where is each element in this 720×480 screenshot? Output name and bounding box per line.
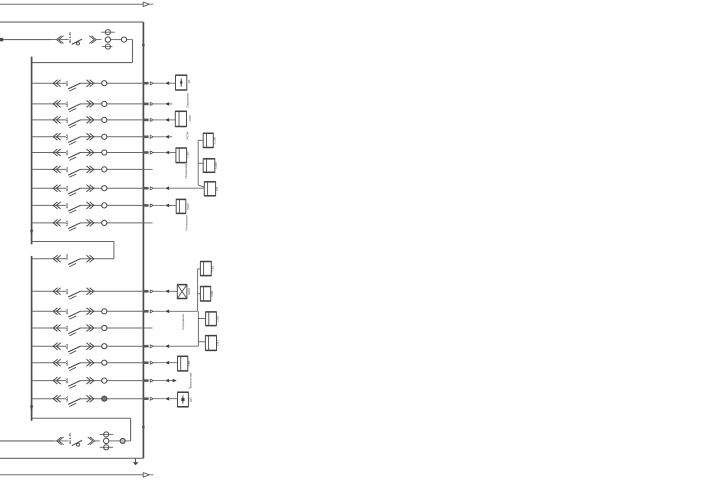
wire: row L3 stub past bus	[143, 327, 152, 329]
connector plug right (row 9)	[86, 219, 94, 226]
breaker pole (row 1)	[102, 81, 107, 86]
svg-text:16А: 16А	[65, 134, 69, 140]
wire: row 6 stub past bus	[143, 168, 152, 170]
wire: row L5 branch from left bus	[32, 362, 144, 364]
svg-text:63А: 63А	[65, 253, 69, 259]
connector plug right (row L7)	[86, 395, 94, 402]
wire: bottom horizontal link	[0, 457, 143, 459]
svg-text:СВ1: СВ1	[211, 265, 215, 271]
svg-text:16А: 16А	[65, 185, 69, 191]
connector plug right (row 2)	[86, 100, 94, 107]
wire: row L7 branch from left bus	[32, 398, 144, 400]
breaker QF blade (row 4)	[68, 137, 80, 145]
svg-text:16А: 16А	[65, 101, 69, 107]
wire: row 6 branch from left bus	[32, 168, 144, 170]
breaker QF blade (row 3)	[68, 120, 80, 128]
fuse and plug contacts (row L1 output)	[144, 290, 178, 294]
label: Rezervnaya (reserve) feeder	[185, 215, 189, 230]
load box C300	[203, 133, 213, 147]
arrow: flow arrow on right bus (top)	[142, 44, 145, 49]
svg-text:С2М: С2М	[214, 162, 218, 169]
breaker pole (row 6)	[102, 167, 107, 172]
connector plug right (row L4)	[86, 343, 94, 350]
arrow: flow arrow on left bus B	[30, 406, 33, 412]
connector plug left (row 7)	[53, 185, 61, 192]
wire: row 8 branch from left bus	[32, 204, 144, 206]
breaker QF blade (row 8)	[68, 205, 80, 213]
svg-text:16А: 16А	[65, 377, 69, 383]
arrow: top line arrowhead	[143, 2, 153, 7]
wire: feeder 2 mid segment	[0, 440, 69, 442]
label: breaker rating row 1	[65, 80, 69, 86]
svg-text:ЩАО: ЩАО	[187, 287, 191, 295]
connector plug right (row 6)	[86, 166, 94, 173]
label: breaker rating row 6	[65, 166, 69, 172]
bus: left bus section B	[31, 256, 33, 421]
label: RSHchU	[186, 203, 190, 210]
breaker pole C (feeder 2)	[100, 445, 113, 450]
label: feeder 1 breaker rating	[68, 32, 72, 43]
breaker pole (row L2)	[102, 309, 107, 314]
wire: row L6 branch from left bus	[32, 380, 144, 382]
connector plug left (row L6)	[53, 377, 61, 384]
connector plug left (row 9)	[53, 219, 61, 226]
connector plug left (row 1)	[53, 80, 61, 87]
connector plug right (row 1)	[86, 80, 94, 87]
wire: row L2 branch from left bus	[32, 310, 144, 312]
wire: bus tie bridge upper	[32, 241, 114, 243]
label: breaker rating row L2	[65, 308, 69, 314]
label: SV2	[216, 315, 220, 321]
label: C300	[213, 137, 217, 144]
breaker pole (row L4)	[102, 344, 107, 349]
breaker QF blade (row 7)	[68, 188, 80, 196]
svg-text:СВ5: СВ5	[187, 360, 191, 366]
label: ShchAO	[187, 287, 191, 295]
wire: row 9 branch from left bus	[32, 222, 144, 224]
label: breaker rating row L1	[65, 288, 69, 294]
breaker QF blade (row 2)	[68, 104, 80, 112]
load box SV1	[200, 262, 211, 276]
connector plug left (row L5)	[53, 359, 61, 366]
label: breaker rating row 9	[65, 220, 69, 226]
svg-text:СВ: СВ	[215, 187, 219, 191]
svg-text:КЗ: КЗ	[187, 80, 191, 84]
svg-text:16А: 16А	[65, 166, 69, 172]
wire: feeder 1 input segment	[3, 39, 51, 41]
breaker pole (row 3)	[102, 117, 107, 122]
connector plug right (row 4)	[86, 133, 94, 140]
label: breaker rating row 8	[65, 202, 69, 208]
connector plug left (row 2)	[53, 100, 61, 107]
wire: feeder 1 after poles	[111, 39, 122, 41]
wire: row 4 branch from left bus	[32, 136, 144, 138]
arrow: bottom line arrowhead	[143, 473, 153, 478]
wire: feeder 2 to riser	[125, 440, 130, 442]
label: C2M	[214, 162, 218, 169]
wire: row 9 stub past bus	[143, 222, 152, 224]
connector X4 plug (feeder 2)	[88, 437, 95, 445]
wire: lower bridge drop	[130, 418, 132, 441]
label: breaker rating row 7	[65, 185, 69, 191]
breaker QF blade (row 6)	[68, 169, 80, 177]
connector X2 plug (feeder 1)	[89, 36, 96, 44]
label: tiny mark above ShchO	[189, 386, 192, 388]
svg-text:16А: 16А	[65, 343, 69, 349]
breaker QF blade (row L7)	[68, 399, 80, 407]
breaker pole (row 4)	[102, 134, 107, 139]
breaker QF blade (row L2)	[68, 311, 80, 319]
label: breaker rating row 2	[65, 101, 69, 107]
connector plug right (row 3)	[86, 116, 94, 123]
svg-text:СВ6: СВ6	[185, 151, 189, 157]
load box ShchO (row L7)	[178, 392, 189, 407]
fuse and plug contacts (row L7 output)	[144, 397, 178, 401]
fuse and plug contacts (row 3 output)	[144, 118, 176, 122]
switch QF2 blade (feeder 2)	[72, 440, 82, 446]
breaker pole (row L7)	[102, 396, 107, 401]
label: RSLK	[186, 131, 190, 139]
load box C2M	[203, 159, 215, 173]
connector plug right (bus tie)	[86, 255, 94, 262]
label: OPS	[188, 114, 192, 121]
svg-text:16А: 16А	[65, 396, 69, 402]
breaker pole (row 8)	[102, 203, 107, 208]
bus: left bus section A	[31, 57, 33, 245]
wire: feeder 2 input segment	[0, 440, 54, 442]
label: SVG	[215, 187, 219, 191]
connector plug right (row L6)	[86, 377, 94, 384]
breaker pole (row L3)	[102, 325, 107, 330]
wire: feeder 1 to drop	[127, 39, 133, 41]
svg-text:16А: 16А	[65, 149, 69, 155]
breaker QF blade (row L3)	[68, 328, 80, 336]
load box SV2	[206, 312, 217, 326]
wire: feeder 1 vertical drop	[132, 40, 134, 63]
label: breaker rating row L5	[65, 360, 69, 366]
connector plug left (row 8)	[53, 202, 61, 209]
label: Pozharnaya (fire) feeder	[184, 164, 188, 179]
breaker QF blade (row 9)	[68, 223, 80, 231]
label: SV5	[187, 360, 191, 366]
svg-text:16А: 16А	[65, 308, 69, 314]
meter circle (feeder 1)	[121, 37, 126, 42]
svg-text:16А: 16А	[65, 288, 69, 294]
connector plug left (row L1)	[53, 288, 61, 295]
bus: right vertical bus	[142, 22, 144, 458]
breaker QF blade (row L6)	[68, 381, 80, 389]
breaker pole C (feeder 1)	[102, 44, 113, 49]
fuse and plug contacts (row 7 output)	[144, 186, 205, 190]
load box SVG (row 7)	[204, 182, 215, 196]
connector plug left (row 4)	[53, 133, 61, 140]
label: SV1	[211, 265, 215, 271]
breaker pole (row 9)	[102, 220, 107, 225]
wire: row L3 branch from left bus	[32, 327, 144, 329]
breaker pole A (feeder 2)	[100, 432, 113, 437]
wire: lower bridge	[32, 417, 130, 419]
svg-text:Резервная: Резервная	[185, 215, 189, 230]
breaker pole (row 2)	[102, 101, 107, 106]
connector plug right (row L2)	[86, 308, 94, 315]
svg-text:СВ2: СВ2	[216, 315, 220, 321]
connector plug left (row L3)	[53, 325, 61, 332]
label: breaker rating row L7	[65, 396, 69, 402]
switch QF1 blade (feeder 1)	[72, 39, 82, 45]
svg-text:РСЛК: РСЛК	[186, 131, 190, 139]
svg-text:1.: 1.	[189, 386, 192, 388]
connector plug right (row L5)	[86, 359, 94, 366]
svg-text:ВА 1-25: ВА 1-25	[68, 32, 72, 43]
wire: feeder 1 to poles	[97, 39, 102, 41]
svg-text:ВА 1-25: ВА 1-25	[68, 433, 72, 444]
svg-text:СВ8: СВ8	[210, 290, 214, 296]
connector plug right (row 5)	[86, 149, 94, 156]
fuse and plug contacts (row 2 output)	[144, 102, 173, 106]
breaker QF blade (row L4)	[68, 346, 80, 354]
label: breaker rating row L3	[65, 325, 69, 331]
wire: top arrow feeder line	[0, 3, 143, 5]
label: SV3	[216, 340, 220, 346]
fuse and plug contacts (row 1 output)	[144, 81, 176, 85]
label: breaker rating row L6	[65, 377, 69, 383]
connector X1 plug (feeder 1)	[57, 36, 64, 44]
wire: row 5 branch from left bus	[32, 152, 144, 154]
connector plug left (row 5)	[53, 149, 61, 156]
load box OPS (row 3)	[175, 111, 186, 126]
label: KZ	[187, 80, 191, 84]
connector plug right (row L1)	[86, 288, 94, 295]
fuse and plug contacts (row 8 output)	[144, 204, 177, 208]
node: input terminal QF1	[0, 38, 3, 41]
fuse and plug contacts (row 4 output)	[144, 135, 173, 139]
wire: bottom arrow feeder line	[0, 474, 143, 476]
wire: top horizontal bus link	[0, 21, 143, 23]
svg-text:16А: 16А	[65, 220, 69, 226]
label: breaker rating row 4	[65, 134, 69, 140]
breaker pole (row L6)	[102, 378, 107, 383]
connector plug left (row 3)	[53, 116, 61, 123]
connector plug left (row L7)	[53, 395, 61, 402]
fuse and plug contacts (row L5 output)	[144, 361, 178, 365]
ground symbol	[133, 458, 139, 465]
connector plug left (row 6)	[53, 166, 61, 173]
connector plug left (bus tie)	[53, 255, 61, 262]
fuse and plug contacts (row L2 output)	[144, 310, 198, 314]
label: Trevozhnaya (alarm)	[189, 373, 193, 389]
wire: chain riser to C300/C2M	[198, 140, 204, 187]
connector plug left (row L2)	[53, 308, 61, 315]
breaker QF blade (row L5)	[68, 363, 80, 371]
wire: feeder 2 after poles	[109, 440, 120, 442]
load box RSHchU (row 8)	[176, 199, 186, 213]
fuse and plug contacts (row L4 output)	[144, 344, 199, 348]
wire: row 7 branch from left bus	[32, 187, 144, 189]
label: breaker rating row 5	[65, 149, 69, 155]
label: Rezerv (row L2)	[181, 314, 185, 329]
fuse and plug contacts (row 5 output)	[144, 151, 176, 155]
breaker pole B (feeder 2)	[104, 438, 109, 443]
svg-text:РЩУ: РЩУ	[186, 203, 190, 210]
wire: row L1 branch from left bus	[32, 290, 144, 292]
svg-text:16А: 16А	[65, 360, 69, 366]
svg-text:ЩО: ЩО	[189, 396, 193, 402]
breaker QF blade (row 5)	[68, 152, 80, 160]
arrow: flow arrow on left bus A	[30, 230, 33, 236]
breaker pole A (feeder 1)	[101, 30, 115, 35]
label: breaker rating row 3	[65, 117, 69, 123]
arrow: flow arrow on right bus (bottom)	[142, 426, 145, 431]
wire: feeder 1 mid segment	[3, 39, 68, 41]
wire: bus tie drop	[113, 242, 115, 259]
label: feeder 2 breaker rating	[68, 433, 72, 444]
svg-text:Пожарная: Пожарная	[184, 164, 188, 179]
breaker QF blade (row 1)	[68, 83, 80, 91]
connector plug right (row 7)	[86, 185, 94, 192]
wire: row 3 branch from left bus	[32, 119, 144, 121]
wire: bus tie row	[32, 258, 114, 260]
wire: chain riser to SV2/SV3	[198, 311, 205, 346]
connector X3 plug (feeder 2)	[57, 437, 64, 445]
meter circle (feeder 2)	[120, 438, 125, 443]
svg-text:С300: С300	[213, 137, 217, 144]
wire: feeder 2 to poles	[95, 440, 100, 442]
breaker QF blade (row L1)	[68, 291, 80, 299]
connector plug left (row L4)	[53, 343, 61, 350]
svg-text:СВ3: СВ3	[216, 340, 220, 346]
svg-text:16А: 16А	[65, 202, 69, 208]
wire: row 1 branch from left bus	[32, 82, 144, 84]
label: SV6	[185, 151, 189, 157]
label: Okhrannaya (security) feeder	[186, 93, 190, 107]
arrow: row L6 outgoing arrow	[173, 379, 177, 383]
svg-text:Тревожная: Тревожная	[189, 373, 193, 389]
connector plug right (row L3)	[86, 325, 94, 332]
svg-text:Охранная: Охранная	[186, 93, 190, 107]
label: bus tie rating	[65, 253, 69, 259]
label: breaker rating row L4	[65, 343, 69, 349]
wire: row L4 branch from left bus	[32, 345, 144, 347]
load box SV8	[200, 287, 210, 302]
svg-text:16А: 16А	[65, 117, 69, 123]
breaker pole (row L5)	[102, 360, 107, 365]
fuse and plug contacts (row L6 output)	[144, 379, 173, 383]
svg-text:16А: 16А	[65, 80, 69, 86]
load box KZ (row 1)	[176, 75, 187, 90]
connector plug right (row 8)	[86, 202, 94, 209]
label: ShchO	[189, 396, 193, 402]
svg-text:Резервная: Резервная	[181, 314, 185, 329]
breaker pole (row 5)	[102, 150, 107, 155]
load box ShchAO with cross (row L1)	[177, 285, 187, 299]
wire: chain riser to SV1/SV8	[198, 269, 201, 311]
load box SV5 (row L5)	[178, 356, 188, 371]
load box SV3	[205, 336, 216, 351]
wire: row 2 branch from left bus	[32, 103, 144, 105]
wire: feeder 1 bottom run to left bus	[32, 62, 133, 64]
svg-text:ОПС: ОПС	[188, 114, 192, 121]
label: SV8	[210, 290, 214, 296]
load box SV6 (row 5)	[176, 148, 187, 163]
breaker blade (bus tie)	[68, 259, 80, 267]
breaker pole B (feeder 1)	[105, 37, 110, 42]
breaker pole (row 7)	[102, 186, 107, 191]
svg-text:16А: 16А	[65, 325, 69, 331]
